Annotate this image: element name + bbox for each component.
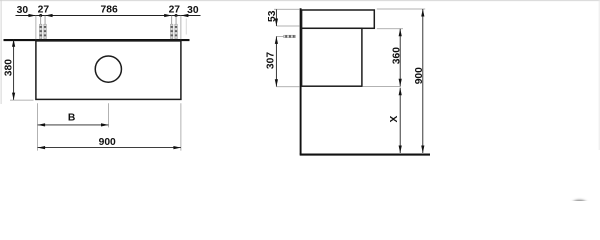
arrow 786-left pointing left [45,14,53,17]
53 top extension line [274,8,300,10]
drain hole circle [95,56,121,82]
page left border [0,0,2,104]
svg-text:900: 900 [414,67,425,84]
countertop (side view) [302,10,375,28]
X dimension [389,88,402,153]
900 extension line (cabinet right, below) [180,103,182,150]
900 dimension (bottom of front view) [38,137,181,149]
svg-text:27: 27 [169,5,181,16]
page right border [598,0,600,150]
360 dimension [392,29,403,87]
cabinet (side view) [302,28,362,86]
B dimension [38,113,109,127]
53 dimension [267,9,278,26]
extension line cabinet right edge [180,16,182,40]
dot at left 30/27 boundary [39,14,42,17]
307 bottom extension line [276,86,299,88]
top extension line (countertop top to 900 dim) [377,8,425,10]
extension line countertop bottom to 360 dim [377,28,403,30]
cabinet body (front view) [36,41,181,100]
countertop slab (front view) [4,39,190,41]
svg-text:786: 786 [101,5,118,16]
B extension line (cabinet left, below) [36,103,38,150]
arrow 786-right pointing right [164,14,172,17]
top dimension line [16,15,201,17]
screw 2 (front) [44,16,46,39]
900 dimension (side view) [414,9,425,153]
svg-text:B: B [68,113,75,124]
wall screw (side view) [276,35,295,37]
svg-text:30: 30 [187,5,199,16]
extension line cabinet bottom to 360/X dims [362,86,400,88]
svg-text:27: 27 [38,5,50,16]
extension line cabinet left edge [35,16,37,40]
svg-text:900: 900 [99,137,116,148]
screw 1 (front) [40,16,42,39]
dot at right 27/30 boundary [175,14,178,17]
wall line [300,8,302,154]
307 dimension [266,36,278,86]
screw 4 (front) [175,16,177,39]
svg-text:53: 53 [267,10,278,22]
arrow right-outer pointing left [181,14,189,17]
svg-text:30: 30 [17,5,29,16]
page top border [0,0,600,2]
arrow left-outer pointing right [28,14,36,17]
svg-text:380: 380 [3,59,14,76]
53 bottom extension line [276,25,299,27]
faint page artifact bottom right [571,200,588,211]
svg-text:X: X [389,115,400,122]
380 dimension [3,39,33,100]
faint extra extension line right of cabinet [185,19,187,35]
floor line [300,154,430,156]
svg-text:360: 360 [392,47,403,64]
screw 3 (front) [171,16,173,39]
B extension line (drain centre) [108,103,110,127]
svg-text:307: 307 [266,52,277,69]
